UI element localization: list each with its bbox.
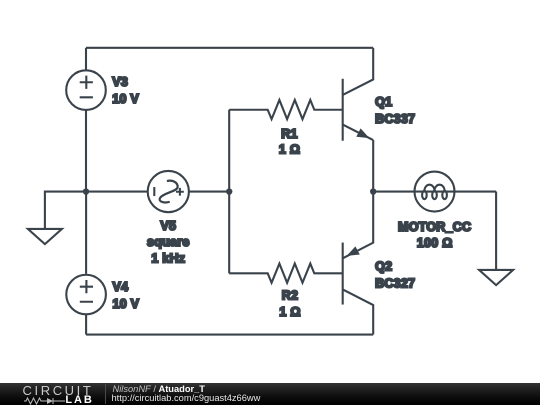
motor MOTOR_CC: [373, 172, 496, 212]
ground GND2: [479, 270, 513, 285]
node junction left rail: [83, 188, 89, 194]
wire bottom rail: [86, 333, 373, 335]
source V5: [148, 171, 189, 212]
svg-text:1 Ω: 1 Ω: [279, 305, 300, 319]
wire V3 bottom lead: [85, 110, 87, 192]
transistor Q1: [343, 48, 374, 141]
footer bar: [0, 383, 540, 405]
wire V3 top lead: [85, 48, 87, 71]
wire V4 top lead: [85, 192, 87, 274]
wire Q1 emitter down: [372, 140, 374, 192]
svg-text:1 kHz: 1 kHz: [151, 251, 185, 265]
node junction mid rail: [226, 188, 232, 194]
label V5 square 1 kHz: [147, 219, 190, 265]
wire rail to V5: [86, 191, 148, 193]
label MOTOR_CC 100 ohm: [398, 220, 471, 250]
label R1 1 ohm: [279, 127, 300, 157]
wire motor to ground: [495, 192, 497, 270]
voltage source V3: [66, 70, 106, 110]
logo schematic squiggle: [24, 397, 66, 405]
logo LAB: [65, 394, 93, 405]
svg-text:V5: V5: [160, 219, 176, 233]
node junction output: [370, 188, 376, 194]
svg-text:R2: R2: [282, 289, 298, 303]
svg-text:MOTOR_CC: MOTOR_CC: [398, 220, 471, 234]
label R2 1 ohm: [279, 289, 300, 320]
svg-text:10 V: 10 V: [113, 297, 140, 311]
ground GND1: [28, 229, 62, 244]
resistor R1: [229, 100, 343, 119]
wire top rail: [86, 47, 373, 49]
wire branch vertical: [228, 110, 230, 274]
wire V5 right lead: [189, 191, 229, 193]
footer title: [113, 384, 205, 394]
svg-text:V3: V3: [112, 75, 128, 89]
svg-text:100 Ω: 100 Ω: [417, 236, 453, 250]
svg-text:V4: V4: [113, 280, 129, 294]
transistor Q2: [343, 192, 374, 335]
svg-text:Q1: Q1: [375, 95, 392, 109]
svg-text:BC327: BC327: [375, 277, 415, 291]
label V4 10 V: [113, 280, 140, 311]
svg-text:BC337: BC337: [375, 112, 415, 126]
wire rail to ground: [45, 192, 86, 229]
resistor R2: [229, 264, 343, 283]
voltage source V4: [66, 275, 106, 315]
label Q1 BC337: [375, 95, 415, 126]
svg-text:square: square: [147, 235, 190, 249]
label V3 10 V: [112, 75, 139, 106]
svg-text:R1: R1: [281, 127, 297, 141]
svg-text:10 V: 10 V: [112, 92, 139, 106]
wire V4 bottom lead: [85, 314, 87, 334]
footer url: [112, 393, 261, 403]
svg-text:Q2: Q2: [375, 260, 392, 274]
svg-text:1 Ω: 1 Ω: [279, 143, 300, 157]
footer separator: [105, 384, 106, 404]
logo CIRCUIT: [23, 383, 94, 398]
label Q2 BC327: [375, 260, 415, 291]
